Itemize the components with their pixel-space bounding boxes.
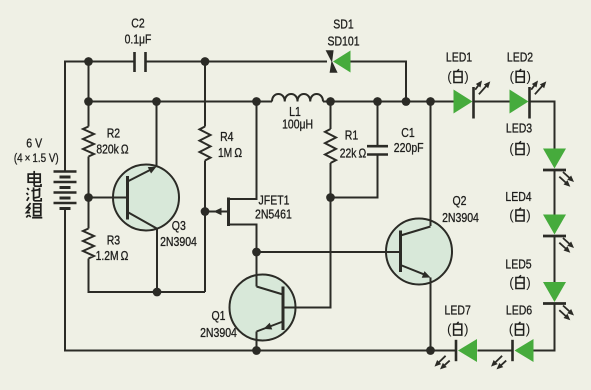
svg-text:): ) bbox=[526, 275, 531, 290]
Q2 base bar bbox=[399, 231, 402, 273]
label L1 bbox=[289, 104, 301, 119]
svg-text:C2: C2 bbox=[131, 16, 144, 31]
svg-text:R4: R4 bbox=[220, 129, 233, 144]
wire LED3 to LED4 bbox=[554, 170, 556, 215]
wire JFET drain lead bbox=[229, 102, 257, 200]
LED3 symbol bbox=[543, 149, 566, 171]
LED1 emission arrows bbox=[475, 81, 490, 95]
svg-text:100μH: 100μH bbox=[282, 116, 313, 131]
svg-text:(: ( bbox=[509, 141, 514, 156]
svg-text:(4 × 1.5 V): (4 × 1.5 V) bbox=[14, 151, 59, 165]
wire JFET source lead bbox=[229, 225, 257, 253]
label R2 bbox=[107, 126, 120, 141]
wire C1 bottom to node B bbox=[331, 155, 378, 198]
transistor Q1 body (2N3904) bbox=[230, 275, 296, 341]
diode SD1 cathode bowtie bar bbox=[326, 50, 338, 73]
svg-text:(: ( bbox=[509, 322, 514, 337]
label R2 value 820k bbox=[96, 142, 129, 157]
svg-text:6 V: 6 V bbox=[26, 136, 42, 151]
wire Q3 emitter to rail bbox=[156, 102, 158, 167]
wire R4 branch from top node down bbox=[204, 62, 206, 127]
label C1 value 220pF bbox=[394, 140, 424, 155]
label L1 value 100uH bbox=[282, 116, 313, 131]
LED4 emission arrows bbox=[559, 238, 574, 253]
label Chinese chi (battery char 2) bbox=[27, 187, 42, 200]
svg-text:JFET1: JFET1 bbox=[259, 193, 290, 208]
transistor Q2 body (2N3904) bbox=[386, 219, 452, 285]
svg-text:R1: R1 bbox=[345, 127, 358, 142]
diode SD1 triangle (SD101) bbox=[333, 51, 351, 73]
svg-text:(: ( bbox=[509, 69, 514, 84]
label (LED2 white/bai) bbox=[509, 69, 531, 84]
LED2 emission arrows bbox=[531, 81, 546, 95]
svg-text:LED1: LED1 bbox=[446, 50, 472, 65]
label LED1 bbox=[446, 50, 472, 65]
wire LED5 down to corner to LED6 bbox=[534, 304, 555, 351]
battery B1 6V (4 x 1.5V cells) bbox=[54, 172, 77, 209]
transistor Q3 body (2N3904) bbox=[113, 165, 179, 231]
svg-text:1M Ω: 1M Ω bbox=[218, 145, 242, 160]
label SD1 bbox=[333, 16, 353, 31]
junction C1 top bbox=[373, 97, 382, 106]
junction rail start bbox=[84, 97, 93, 106]
svg-text:2N3904: 2N3904 bbox=[160, 234, 197, 249]
label R4 value 1M bbox=[218, 145, 242, 160]
junction R2/R3/Q3 base bbox=[84, 193, 93, 202]
svg-text:(: ( bbox=[509, 208, 514, 223]
svg-text:(: ( bbox=[509, 275, 514, 290]
svg-text:2N5461: 2N5461 bbox=[255, 206, 292, 221]
junction SD1 branch bbox=[402, 97, 411, 106]
svg-text:SD101: SD101 bbox=[327, 33, 359, 48]
Q3 emitter line with arrow bbox=[128, 167, 157, 182]
Q3 base bar bbox=[126, 176, 129, 220]
wire LED4 to LED5 bbox=[554, 236, 556, 282]
label LED5 bbox=[505, 257, 531, 272]
LED3 emission arrows bbox=[559, 172, 574, 187]
resistor R2 820k body bbox=[83, 127, 94, 157]
Q1 collector diagonal bbox=[257, 287, 284, 295]
LED4 symbol bbox=[543, 215, 566, 237]
LED5 symbol bbox=[543, 282, 566, 304]
wire Q2 emitter vertical to ground rail bbox=[430, 278, 432, 351]
wire battery- down and bottom ground rail to LED7 bbox=[65, 209, 456, 351]
JFET1 gate arrow (P-channel) bbox=[214, 208, 222, 216]
label LED2 bbox=[507, 50, 533, 65]
label JFET1 value 2N5461 bbox=[255, 206, 292, 221]
svg-text:): ) bbox=[526, 141, 531, 156]
svg-text:LED7: LED7 bbox=[445, 303, 471, 318]
svg-text:): ) bbox=[526, 322, 531, 337]
JFET1 channel bar bbox=[227, 198, 230, 227]
svg-text:(: ( bbox=[447, 69, 452, 84]
svg-text:): ) bbox=[464, 69, 469, 84]
svg-text:R3: R3 bbox=[107, 233, 120, 248]
label R4 bbox=[220, 129, 233, 144]
label SD1 value SD101 bbox=[327, 33, 359, 48]
label C2 bbox=[131, 16, 144, 31]
junction JFET drain / L1 bbox=[252, 97, 261, 106]
svg-text:): ) bbox=[526, 208, 531, 223]
label (LED3 white/bai) bbox=[509, 141, 531, 156]
svg-text:LED5: LED5 bbox=[505, 257, 531, 272]
label LED4 bbox=[505, 189, 531, 204]
wire node A: JFET source / Q1 collector / Q2 base bbox=[257, 251, 401, 253]
svg-text:2N3904: 2N3904 bbox=[200, 325, 237, 340]
Q3 collector line bbox=[128, 212, 158, 229]
wire R1 bottom through node B down to Q1 base bbox=[283, 163, 331, 308]
resistor R4 1M body bbox=[200, 127, 211, 161]
wire C1 top bbox=[377, 102, 379, 147]
svg-text:220pF: 220pF bbox=[394, 140, 424, 155]
capacitor C2 plates bbox=[135, 52, 146, 72]
wire C2 to SD1 cathode bbox=[146, 61, 328, 63]
wire R2 branch vertical from top rail bbox=[88, 62, 90, 127]
junction Q1 emitter / ground rail bbox=[252, 346, 261, 355]
svg-text:): ) bbox=[464, 322, 469, 337]
LED2 symbol bbox=[510, 87, 530, 119]
svg-text:C1: C1 bbox=[401, 125, 414, 140]
junction R1/C1 node B bbox=[326, 193, 335, 202]
junction R1 top bbox=[326, 97, 335, 106]
label battery (4 x 1.5 V) bbox=[14, 151, 59, 165]
LED7 symbol bbox=[456, 339, 477, 362]
wire JFET gate lead bbox=[205, 211, 228, 213]
wire L1 right to LED1 bbox=[323, 101, 454, 103]
wire Q1 emitter vertical to ground rail bbox=[256, 332, 258, 351]
label LED6 bbox=[506, 303, 532, 318]
label Chinese dian (battery char 1) bbox=[28, 171, 41, 186]
inductor L1 100uH coil bbox=[272, 94, 323, 102]
wire R1 top bbox=[330, 102, 332, 130]
wire rail y=101 from R2 branch to L1 bbox=[89, 101, 273, 103]
Q1 base bar bbox=[282, 287, 285, 331]
svg-text:LED3: LED3 bbox=[506, 120, 532, 135]
label Q3 value 2N3904 bbox=[160, 234, 197, 249]
wire SD1 anode right then down to boost node bbox=[351, 62, 407, 102]
svg-text:LED6: LED6 bbox=[506, 303, 532, 318]
svg-text:R2: R2 bbox=[107, 126, 120, 141]
junction Q2 emitter / ground rail bbox=[426, 346, 435, 355]
label R3 value 1.2M bbox=[96, 248, 129, 263]
Q1 emitter diagonal with arrow bbox=[257, 322, 284, 332]
capacitor C1 plates bbox=[367, 146, 388, 154]
junction top node / R4 branch bbox=[201, 57, 210, 66]
wire LED7 to LED6 bbox=[478, 350, 513, 352]
svg-text:LED2: LED2 bbox=[507, 50, 533, 65]
wire R2 to R3 segment bbox=[88, 157, 90, 229]
label Chinese zu (battery char 3) bbox=[26, 203, 42, 218]
label R3 bbox=[107, 233, 120, 248]
svg-text:Q3: Q3 bbox=[172, 218, 186, 233]
junction Q2 collector bbox=[426, 97, 435, 106]
resistor R3 1.2M body bbox=[83, 229, 94, 259]
wire Q1 collector vertical bbox=[256, 252, 258, 287]
svg-text:22k Ω: 22k Ω bbox=[340, 145, 367, 160]
label LED7 bbox=[445, 303, 471, 318]
LED7 emission arrows bbox=[435, 356, 450, 370]
label C1 bbox=[401, 125, 414, 140]
label (LED1 white/bai) bbox=[447, 69, 469, 84]
wire LED2 right then down to LED3 bbox=[530, 102, 555, 149]
resistor R1 22k body bbox=[325, 129, 336, 163]
label Q1 bbox=[212, 308, 226, 323]
label JFET1 bbox=[259, 193, 290, 208]
wire Q3 collector down to gate net bbox=[156, 229, 158, 292]
junction JFET gate bbox=[201, 207, 210, 216]
LED1 symbol bbox=[454, 87, 474, 119]
svg-text:Q1: Q1 bbox=[212, 308, 226, 323]
label (LED7 white/bai) bbox=[447, 322, 469, 337]
label (LED5 white/bai) bbox=[509, 275, 531, 290]
svg-text:SD1: SD1 bbox=[333, 16, 353, 31]
svg-text:2N3904: 2N3904 bbox=[442, 210, 479, 225]
junction node A bbox=[252, 248, 261, 257]
label (LED6 white/bai) bbox=[509, 322, 531, 337]
label R1 value 22k bbox=[340, 145, 367, 160]
svg-text:(: ( bbox=[447, 322, 452, 337]
LED5 emission arrows bbox=[559, 306, 574, 321]
wire battery+ vertical drop bbox=[64, 61, 66, 172]
wire top rail battery+ to C2 bbox=[65, 61, 135, 63]
svg-text:): ) bbox=[526, 69, 531, 84]
wire R3 bottom to gate-net corner bbox=[89, 259, 206, 293]
junction Q3 collector / gate net bbox=[153, 288, 162, 297]
label R1 bbox=[345, 127, 358, 142]
wire LED1 to LED2 bbox=[474, 101, 510, 103]
label Q3 bbox=[172, 218, 186, 233]
svg-text:Q2: Q2 bbox=[453, 193, 467, 208]
junction Q3 emitter / rail bbox=[152, 97, 161, 106]
LED6 symbol bbox=[513, 339, 534, 362]
svg-text:1.2M Ω: 1.2M Ω bbox=[96, 248, 129, 263]
label (LED4 white/bai) bbox=[509, 208, 531, 223]
label C2 value 0.1uF bbox=[125, 32, 152, 47]
label Q2 value 2N3904 bbox=[442, 210, 479, 225]
svg-text:820k Ω: 820k Ω bbox=[96, 142, 129, 157]
Q2 emitter diagonal with arrow bbox=[401, 265, 431, 278]
wire Q2 collector vertical to rail bbox=[430, 102, 432, 227]
Q2 collector diagonal bbox=[401, 227, 431, 236]
label Q2 bbox=[453, 193, 467, 208]
wire Q3 base bbox=[89, 197, 128, 199]
label LED3 bbox=[506, 120, 532, 135]
wire R4 bottom through JFET gate node to corner bbox=[204, 161, 206, 293]
label battery 6 V bbox=[26, 136, 42, 151]
svg-text:LED4: LED4 bbox=[505, 189, 531, 204]
svg-text:0.1μF: 0.1μF bbox=[125, 32, 152, 47]
LED6 emission arrows bbox=[491, 356, 506, 370]
junction top rail / R2 branch bbox=[84, 57, 93, 66]
label Q1 value 2N3904 bbox=[200, 325, 237, 340]
